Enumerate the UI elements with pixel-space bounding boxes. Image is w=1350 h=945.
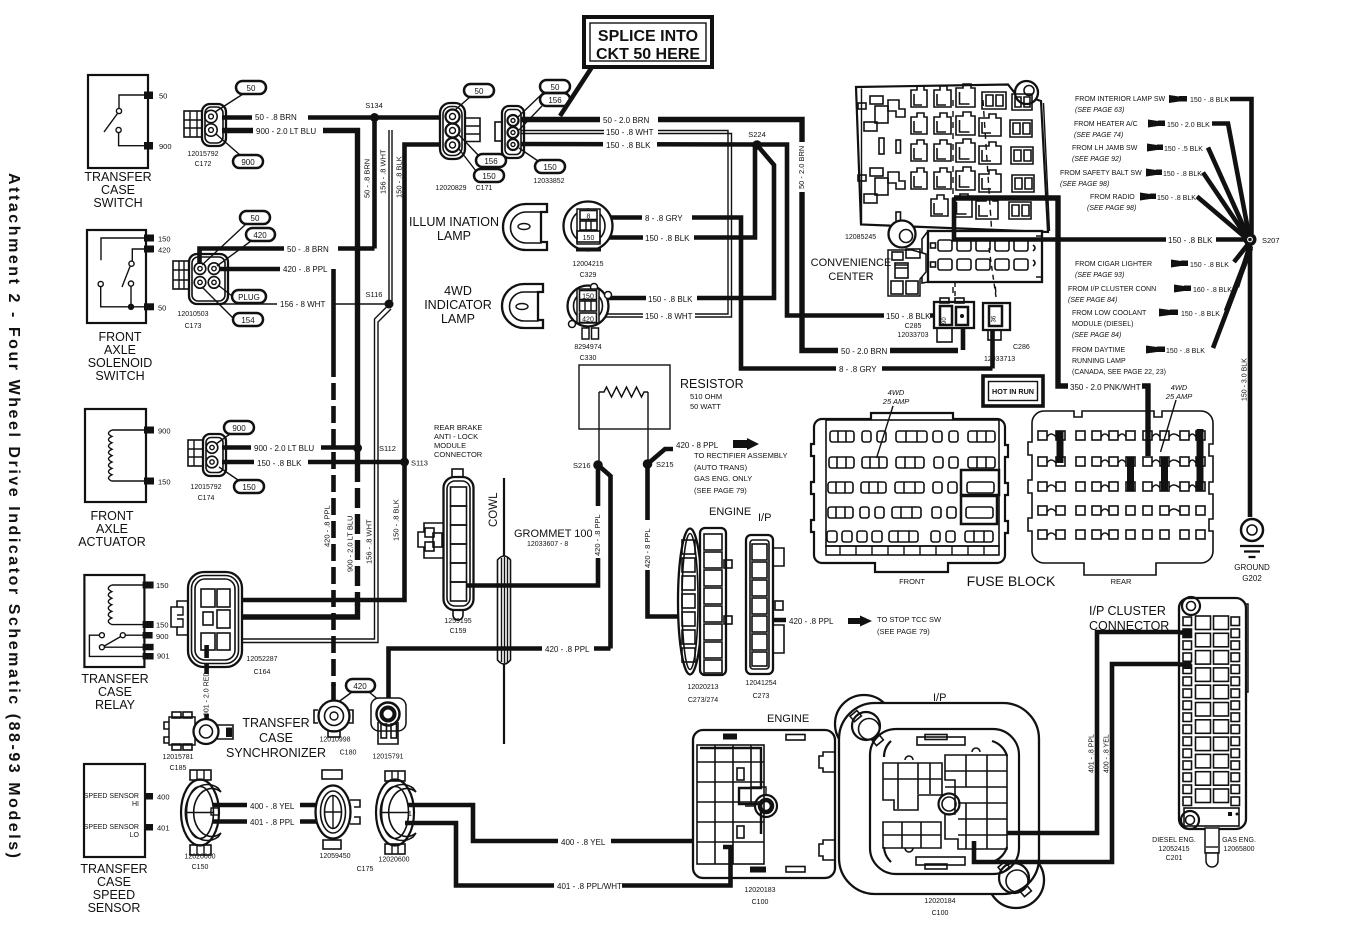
svg-text:401: 401 — [157, 824, 170, 833]
svg-text:12059450: 12059450 — [319, 853, 350, 860]
callout oval 420 (C173) — [246, 228, 275, 241]
svg-text:C330: C330 — [580, 355, 597, 362]
svg-text:(SEE PAGE 98): (SEE PAGE 98) — [1087, 205, 1136, 212]
svg-text:ACTUATOR: ACTUATOR — [78, 535, 146, 549]
svg-text:FRONT: FRONT — [98, 330, 141, 344]
wire 150-.8 BLK vertical (C171 to S113 to C164) — [242, 145, 441, 601]
svg-text:150 - .8 BLK: 150 - .8 BLK — [257, 459, 302, 468]
svg-text:C100: C100 — [932, 910, 949, 917]
svg-text:510 OHM: 510 OHM — [690, 392, 722, 401]
rear fuse block — [1028, 383, 1213, 586]
ENGINE C100 connector — [693, 713, 835, 906]
left cluster row2 — [870, 168, 883, 176]
svg-text:S112: S112 — [379, 444, 396, 453]
wire 420-.8 PPL vertical (to C180) — [331, 269, 336, 360]
svg-text:DIESEL ENG.: DIESEL ENG. — [1152, 837, 1196, 844]
S224 branch to C285 — [757, 145, 934, 316]
svg-text:(SEE PAGE 63): (SEE PAGE 63) — [1075, 107, 1124, 114]
svg-text:CASE: CASE — [101, 183, 135, 197]
callout oval 156 (12033852) — [540, 93, 570, 106]
svg-text:156 - 8 WHT: 156 - 8 WHT — [280, 300, 325, 309]
front fuse block — [811, 388, 1008, 586]
left upper grid — [883, 756, 942, 810]
svg-text:400 - .8 YEL: 400 - .8 YEL — [561, 838, 606, 847]
connector 12033852 — [495, 106, 565, 185]
svg-text:400: 400 — [157, 793, 170, 802]
svg-text:SWITCH: SWITCH — [95, 369, 144, 383]
resistor R (510 ohm) — [579, 365, 744, 465]
svg-text:12085245: 12085245 — [845, 234, 876, 241]
svg-text:(CANADA, SEE PAGE 22, 23): (CANADA, SEE PAGE 22, 23) — [1072, 369, 1166, 376]
svg-text:900 - 2.0 LT BLU: 900 - 2.0 LT BLU — [254, 444, 314, 453]
svg-text:50: 50 — [475, 87, 484, 96]
svg-text:(SEE PAGE 79): (SEE PAGE 79) — [877, 627, 930, 636]
callout oval 420 (C180/12015791) — [346, 679, 375, 692]
svg-text:C329: C329 — [580, 272, 597, 279]
svg-text:FROM CIGAR LIGHTER: FROM CIGAR LIGHTER — [1075, 261, 1152, 268]
svg-text:GROUND: GROUND — [1234, 563, 1270, 572]
svg-text:90: 90 — [942, 317, 948, 324]
svg-text:12033703: 12033703 — [897, 332, 928, 339]
svg-text:900 - 2.0 LT BLU: 900 - 2.0 LT BLU — [346, 516, 355, 572]
svg-text:C173: C173 — [185, 323, 202, 330]
svg-text:C175: C175 — [357, 866, 374, 873]
svg-text:12015792: 12015792 — [187, 151, 218, 158]
node S112 — [353, 444, 362, 453]
callout oval 150 (12033852) — [535, 160, 565, 173]
svg-text:154: 154 — [241, 316, 255, 325]
svg-text:CKT 50 HERE: CKT 50 HERE — [596, 46, 700, 63]
svg-text:150 - .8 BLK: 150 - .8 BLK — [1163, 171, 1202, 178]
svg-text:150 - .8 BLK: 150 - .8 BLK — [1168, 236, 1213, 245]
svg-text:I/P: I/P — [758, 512, 771, 524]
ground wire S207 down — [1248, 246, 1253, 517]
svg-text:12020213: 12020213 — [687, 684, 718, 691]
svg-text:(AUTO TRANS): (AUTO TRANS) — [694, 463, 748, 472]
svg-text:MODULE: MODULE — [434, 441, 466, 450]
svg-text:TRANSFER: TRANSFER — [81, 672, 148, 686]
svg-text:150 - .8 BLK: 150 - .8 BLK — [1190, 97, 1229, 104]
svg-text:420: 420 — [158, 246, 171, 255]
svg-text:AXLE: AXLE — [96, 522, 128, 536]
fuse row 5 — [827, 531, 993, 542]
svg-text:C150: C150 — [192, 864, 209, 871]
connector C164 — [171, 572, 278, 676]
svg-text:CASE: CASE — [98, 685, 132, 699]
svg-text:900 - 2.0 LT BLU: 900 - 2.0 LT BLU — [256, 127, 316, 136]
svg-text:C185: C185 — [170, 765, 187, 772]
svg-text:SENSOR: SENSOR — [88, 901, 141, 915]
svg-text:SYNCHRONIZER: SYNCHRONIZER — [226, 746, 326, 760]
svg-text:150: 150 — [158, 235, 171, 244]
svg-text:50 WATT: 50 WATT — [690, 402, 721, 411]
svg-text:901 - 2.0 RED: 901 - 2.0 RED — [204, 672, 211, 716]
convenience center pigtail 12085245 — [888, 221, 926, 297]
svg-text:150: 150 — [582, 294, 594, 301]
svg-text:12033607 - 8: 12033607 - 8 — [527, 541, 568, 548]
svg-text:12065800: 12065800 — [1223, 846, 1254, 853]
svg-text:FROM LH JAMB SW: FROM LH JAMB SW — [1072, 145, 1138, 152]
svg-text:C100: C100 — [752, 899, 769, 906]
left lower grid — [883, 822, 941, 852]
svg-text:420: 420 — [582, 317, 594, 324]
svg-text:400 - .8 YEL: 400 - .8 YEL — [1104, 734, 1111, 773]
GROUP: bottom — [181, 597, 1256, 917]
svg-text:8: 8 — [587, 214, 591, 221]
wire conv center to fuse (350 PNK) upper segment — [954, 198, 1148, 456]
svg-text:C286: C286 — [1013, 344, 1030, 351]
cowl grommet — [488, 478, 593, 744]
connector C172 — [184, 104, 226, 168]
svg-text:401 - .8 PPL: 401 - .8 PPL — [1089, 734, 1096, 773]
svg-text:REAR BRAKE: REAR BRAKE — [434, 423, 482, 432]
node S215 — [643, 459, 653, 469]
svg-text:12033713: 12033713 — [984, 356, 1015, 363]
squares grid — [1038, 431, 1205, 539]
svg-text:401 - .8 PPL/WHT: 401 - .8 PPL/WHT — [557, 882, 622, 891]
svg-text:420: 420 — [253, 231, 267, 240]
svg-text:156 - .8 WHT: 156 - .8 WHT — [379, 149, 388, 194]
svg-text:12010503: 12010503 — [177, 311, 208, 318]
svg-text:(SEE PAGE 93): (SEE PAGE 93) — [1075, 272, 1124, 279]
svg-text:150 - 3.0 BLK: 150 - 3.0 BLK — [1242, 358, 1249, 401]
svg-text:12052287: 12052287 — [246, 656, 277, 663]
svg-text:150 - .8 BLK: 150 - .8 BLK — [392, 499, 401, 541]
wire conv center to S207 (long 150 BLK) — [954, 198, 1245, 240]
svg-text:INDICATOR: INDICATOR — [424, 298, 492, 312]
connector 12015791 — [371, 698, 406, 761]
GROUP: left title — [5, 173, 22, 858]
wire 420-.8 PPL (C173 to vertical) — [219, 267, 334, 272]
S215 wire down to engine connector — [648, 464, 690, 617]
svg-text:COWL: COWL — [488, 492, 500, 527]
wire C159 to S216 vertical — [466, 465, 598, 586]
svg-text:50 - .8 BRN: 50 - .8 BRN — [363, 159, 372, 198]
svg-text:TO RECTIFIER ASSEMBLY: TO RECTIFIER ASSEMBLY — [694, 451, 788, 460]
front axle solenoid switch box — [87, 230, 171, 383]
S207 splice fan — [1060, 95, 1280, 376]
svg-text:GAS ENG.: GAS ENG. — [1222, 837, 1256, 844]
svg-text:C273/274: C273/274 — [688, 697, 718, 704]
svg-text:C180: C180 — [340, 750, 357, 757]
svg-text:420 - .8 PPL: 420 - .8 PPL — [789, 617, 834, 626]
svg-text:LAMP: LAMP — [437, 229, 471, 243]
svg-text:TRANSFER: TRANSFER — [84, 170, 151, 184]
svg-text:350 - 2.0 PNK/WHT: 350 - 2.0 PNK/WHT — [1070, 383, 1141, 392]
svg-text:FRONT: FRONT — [90, 509, 133, 523]
transfer case relay box — [81, 575, 169, 712]
wire 420-.8PPL to stop tcc sw — [772, 618, 800, 623]
svg-text:160 - .8 BLK: 160 - .8 BLK — [1193, 287, 1232, 294]
dark bars — [1057, 431, 1064, 463]
svg-text:FROM SAFETY BALT SW: FROM SAFETY BALT SW — [1060, 170, 1142, 177]
svg-text:12033852: 12033852 — [533, 178, 564, 185]
svg-text:150 - .8 BLK: 150 - .8 BLK — [606, 141, 651, 150]
S224 branch to C330 — [601, 145, 774, 298]
svg-text:GROMMET 100: GROMMET 100 — [514, 528, 593, 540]
svg-text:1: 1 — [408, 811, 412, 818]
svg-text:150 - .8 BLK: 150 - .8 BLK — [648, 295, 693, 304]
callout oval 50 (C173) — [240, 211, 270, 224]
svg-text:156: 156 — [484, 157, 498, 166]
svg-text:12020184: 12020184 — [924, 898, 955, 905]
svg-text:150: 150 — [482, 172, 496, 181]
svg-text:CASE: CASE — [259, 731, 293, 745]
svg-text:SPLICE INTO: SPLICE INTO — [598, 28, 698, 45]
svg-text:50: 50 — [159, 92, 167, 101]
svg-text:150 - .8 WHT: 150 - .8 WHT — [645, 312, 693, 321]
fuse row 2 — [829, 457, 995, 468]
wire 900-2.0 LT BLU vertical lower part — [355, 448, 360, 464]
svg-text:156: 156 — [548, 96, 562, 105]
I/P C100 connector — [835, 692, 1044, 917]
svg-text:900: 900 — [232, 424, 246, 433]
bulb socket C329 — [564, 202, 613, 280]
svg-text:12020600: 12020600 — [378, 857, 409, 864]
convenience center lower block — [922, 231, 1042, 283]
svg-text:(SEE PAGE 84): (SEE PAGE 84) — [1072, 332, 1121, 339]
svg-text:50: 50 — [247, 84, 256, 93]
svg-text:C201: C201 — [1166, 855, 1183, 862]
svg-text:(SEE PAGE 92): (SEE PAGE 92) — [1072, 156, 1121, 163]
svg-text:12015792: 12015792 — [190, 484, 221, 491]
hot in run box — [983, 376, 1043, 406]
relay shapes grid — [858, 84, 1034, 225]
col4 relays — [953, 84, 975, 217]
svg-text:150 - .8 BLK: 150 - .8 BLK — [395, 156, 404, 198]
svg-text:FRONT: FRONT — [899, 577, 925, 586]
callout oval 154 (C173) — [233, 313, 263, 326]
svg-text:GAS ENG. ONLY: GAS ENG. ONLY — [694, 474, 752, 483]
wire 50-.8 BRN (C173 up to junction) — [200, 249, 375, 265]
svg-text:(SEE PAGE 79): (SEE PAGE 79) — [694, 486, 747, 495]
col2 relays — [911, 86, 927, 189]
svg-text:C172: C172 — [195, 161, 212, 168]
col6 pairs — [1009, 94, 1034, 219]
svg-text:12015791: 12015791 — [372, 754, 403, 761]
callout oval 50 (C171) — [464, 84, 494, 97]
svg-text:25 AMP: 25 AMP — [1165, 392, 1192, 401]
svg-text:C171: C171 — [476, 185, 493, 192]
squiggles — [1047, 434, 1196, 536]
svg-text:12015781: 12015781 — [162, 754, 193, 761]
svg-text:50 - .8 BRN: 50 - .8 BRN — [255, 113, 297, 122]
splice callout box — [560, 17, 712, 116]
svg-text:150: 150 — [583, 235, 595, 242]
I/P cluster connector — [1089, 597, 1256, 867]
callout oval 150 (C171) — [474, 169, 504, 182]
svg-text:150 - 2.0 BLK: 150 - 2.0 BLK — [1167, 122, 1210, 129]
svg-text:50 - .8 BRN: 50 - .8 BRN — [287, 245, 329, 254]
callout oval 50 (C172) — [236, 81, 266, 94]
svg-text:150 - .8 BLK: 150 - .8 BLK — [645, 234, 690, 243]
ground G202 — [1234, 519, 1270, 583]
connector C180 — [314, 701, 356, 757]
wire 401 PPL/WHT to engine C100 — [405, 823, 731, 886]
connector C174 — [188, 434, 226, 502]
svg-text:150 - .8 BLK: 150 - .8 BLK — [1157, 195, 1196, 202]
S215 stub to rectifier label — [648, 449, 674, 464]
svg-text:FROM HEATER A/C: FROM HEATER A/C — [1074, 121, 1138, 128]
svg-text:12020183: 12020183 — [744, 887, 775, 894]
wire 156 WHT below S116 (jog to x373.5 down to C164) — [242, 306, 388, 639]
svg-text:S113: S113 — [411, 459, 428, 468]
wire 901-2.0 RED (C164 to C185) — [204, 645, 209, 704]
left cluster row1 — [870, 96, 883, 104]
svg-text:(SEE PAGE 84): (SEE PAGE 84) — [1068, 297, 1117, 304]
side connector of C159 — [418, 523, 444, 558]
svg-text:CASE: CASE — [97, 875, 131, 889]
wire 50-.8 BRN (C172 to S134 to C171) — [222, 115, 441, 120]
callout oval 900 (C174) — [224, 421, 254, 434]
svg-text:50 - 2.0 BRN: 50 - 2.0 BRN — [797, 146, 806, 189]
wire 900-2.0 LT BLU (C172 down) — [222, 131, 358, 449]
bulb socket C330 — [568, 284, 612, 363]
svg-text:SPEED: SPEED — [93, 888, 135, 902]
svg-text:156 - .8 WHT: 156 - .8 WHT — [365, 519, 374, 564]
callout oval 150 (C174) — [234, 480, 264, 493]
node S134 — [370, 113, 379, 122]
connector 12059450 C175 — [316, 770, 374, 873]
svg-text:S134: S134 — [365, 101, 383, 110]
svg-text:FROM DAYTIME: FROM DAYTIME — [1072, 347, 1125, 354]
highlighted fuse boxes right — [961, 470, 999, 495]
wire 50-2.0 BRN (12033852 to right) — [521, 120, 958, 351]
svg-text:50: 50 — [251, 214, 260, 223]
svg-text:50 - 2.0 BRN: 50 - 2.0 BRN — [603, 116, 649, 125]
svg-text:MODULE (DIESEL): MODULE (DIESEL) — [1072, 321, 1133, 328]
callout oval 156 (C171) — [476, 154, 506, 167]
svg-text:4WD: 4WD — [888, 388, 905, 397]
wire 50-.8 BRN vertical S134 down — [372, 118, 377, 249]
svg-text:150 - .8 WHT: 150 - .8 WHT — [606, 128, 654, 137]
wire 156-.8 WHT vertical (C171 to S116) — [388, 130, 390, 304]
svg-text:(SEE PAGE 74): (SEE PAGE 74) — [1074, 132, 1123, 139]
connector C285 — [897, 248, 996, 350]
node S113 — [400, 458, 409, 467]
svg-text:SOLENOID: SOLENOID — [88, 356, 153, 370]
svg-text:SWITCH: SWITCH — [93, 196, 142, 210]
callout oval 50 (12033852) — [540, 80, 570, 93]
svg-text:C164: C164 — [254, 669, 271, 676]
svg-text:TO STOP TCC SW: TO STOP TCC SW — [877, 615, 942, 624]
node S224 — [752, 140, 762, 150]
wires C150 to C175 — [213, 803, 318, 808]
svg-text:S224: S224 — [748, 130, 766, 139]
svg-text:8294974: 8294974 — [574, 344, 601, 351]
svg-text:150: 150 — [543, 163, 557, 172]
svg-text:FROM INTERIOR LAMP SW: FROM INTERIOR LAMP SW — [1075, 96, 1165, 103]
col3 relays — [931, 86, 951, 216]
svg-text:RUNNING LAMP: RUNNING LAMP — [1072, 358, 1126, 365]
S216 branch down to 420 wire — [598, 465, 611, 649]
convenience center upper block — [845, 81, 1050, 298]
wire 150-.8 BLK (C174 to S113) — [222, 460, 405, 465]
svg-text:12020829: 12020829 — [435, 185, 466, 192]
GROUP: middle — [162, 365, 942, 772]
svg-text:ENGINE: ENGINE — [709, 506, 751, 518]
node S207 — [1244, 233, 1257, 246]
svg-text:PLUG: PLUG — [238, 293, 260, 302]
svg-text:CENTER: CENTER — [828, 271, 873, 283]
wire 420-.8PPL horizontal (synchronizer to S216) — [389, 649, 611, 706]
GROUP: left components — [78, 75, 171, 915]
svg-text:LO: LO — [130, 832, 140, 839]
svg-text:150 - .5 BLK: 150 - .5 BLK — [1164, 146, 1203, 153]
svg-text:HOT IN RUN: HOT IN RUN — [992, 387, 1034, 396]
wire 150-.8 BLK (12033852 to S224) — [521, 142, 757, 147]
illumination lamp symbol — [409, 204, 547, 250]
svg-text:12052415: 12052415 — [1158, 846, 1189, 853]
svg-text:S216: S216 — [573, 461, 591, 470]
svg-text:FROM LOW COOLANT: FROM LOW COOLANT — [1072, 310, 1147, 317]
svg-text:420 - .8 PPL: 420 - .8 PPL — [323, 505, 332, 547]
svg-text:SPEED SENSOR: SPEED SENSOR — [84, 793, 139, 800]
svg-text:HI: HI — [132, 801, 139, 808]
svg-text:S116: S116 — [366, 290, 383, 299]
GROUP: fuse blocks — [811, 383, 1213, 589]
svg-text:Attachment 2 - Four Wheel Driv: Attachment 2 - Four Wheel Drive Indicato… — [5, 173, 22, 858]
col5 pairs — [976, 92, 1006, 219]
callout oval PLUG (C173) — [232, 290, 266, 303]
svg-text:4WD: 4WD — [444, 284, 472, 298]
svg-text:50 - 2.0 BRN: 50 - 2.0 BRN — [841, 347, 887, 356]
connector C150 — [181, 770, 221, 871]
svg-text:TRANSFER: TRANSFER — [80, 862, 147, 876]
svg-text:I/P CLUSTER: I/P CLUSTER — [1089, 604, 1166, 618]
svg-text:C285: C285 — [905, 323, 922, 330]
wire 8-.8 GRY (C329 to C286) — [601, 218, 993, 369]
svg-text:900: 900 — [159, 142, 172, 151]
br tower ring — [1006, 870, 1028, 892]
svg-text:4WD: 4WD — [1171, 383, 1188, 392]
svg-text:REAR: REAR — [1111, 577, 1132, 586]
svg-text:150: 150 — [158, 478, 171, 487]
svg-text:AXLE: AXLE — [104, 343, 136, 357]
callout oval 900 (C172) — [233, 155, 263, 168]
svg-text:12020600: 12020600 — [184, 854, 215, 861]
svg-text:RELAY: RELAY — [95, 698, 136, 712]
svg-text:150 - .8 BLK: 150 - .8 BLK — [886, 312, 931, 321]
svg-text:1259195: 1259195 — [444, 618, 471, 625]
svg-text:12004215: 12004215 — [572, 261, 603, 268]
svg-text:150: 150 — [156, 621, 169, 630]
svg-text:(SEE PAGE 98): (SEE PAGE 98) — [1060, 181, 1109, 188]
svg-text:8 - .8 GRY: 8 - .8 GRY — [839, 365, 877, 374]
svg-text:TRANSFER: TRANSFER — [242, 716, 309, 730]
4wd indicator lamp symbol — [424, 284, 543, 328]
svg-text:ANTI - LOCK: ANTI - LOCK — [434, 432, 478, 441]
svg-text:900: 900 — [241, 158, 255, 167]
svg-text:12041254: 12041254 — [745, 680, 776, 687]
svg-text:12010998: 12010998 — [319, 737, 350, 744]
svg-text:G202: G202 — [1242, 574, 1262, 583]
svg-text:ILLUM INATION: ILLUM INATION — [409, 215, 499, 229]
svg-text:S207: S207 — [1262, 236, 1280, 245]
svg-text:C174: C174 — [198, 495, 215, 502]
svg-text:420 - .8 PPL: 420 - .8 PPL — [593, 514, 602, 556]
transfer case speed sensor box — [80, 764, 169, 915]
svg-text:420 - .8 PPL: 420 - .8 PPL — [545, 645, 590, 654]
svg-text:400 - .8 YEL: 400 - .8 YEL — [250, 802, 295, 811]
fuse row 3 — [828, 482, 994, 493]
svg-text:CONNECTOR: CONNECTOR — [434, 450, 483, 459]
svg-text:900: 900 — [156, 632, 169, 641]
bottom tick strip — [826, 546, 999, 555]
svg-text:150 - .8 BLK: 150 - .8 BLK — [1190, 262, 1229, 269]
svg-text:S215: S215 — [656, 460, 674, 469]
svg-text:150 - .8 BLK: 150 - .8 BLK — [1166, 348, 1205, 355]
